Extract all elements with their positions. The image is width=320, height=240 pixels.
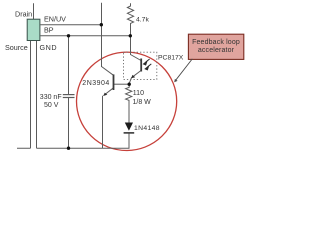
svg-text:Drain: Drain [15, 10, 32, 19]
svg-text:330 nF: 330 nF [40, 94, 62, 101]
svg-text:4.7k: 4.7k [136, 17, 149, 24]
svg-text:BP: BP [44, 25, 54, 34]
svg-text:1/8 W: 1/8 W [133, 99, 152, 106]
svg-text:EN/UV: EN/UV [44, 15, 66, 24]
svg-text:110: 110 [133, 90, 144, 97]
svg-text:Feedback loop: Feedback loop [192, 39, 240, 46]
svg-text:2N3904: 2N3904 [82, 80, 110, 87]
svg-text:Source: Source [5, 43, 28, 52]
svg-text:50 V: 50 V [44, 102, 59, 109]
svg-text:accelerator: accelerator [198, 47, 235, 54]
svg-text:GND: GND [40, 43, 58, 52]
svg-text:1N4148: 1N4148 [134, 125, 160, 132]
svg-text:PC817X: PC817X [158, 55, 184, 62]
